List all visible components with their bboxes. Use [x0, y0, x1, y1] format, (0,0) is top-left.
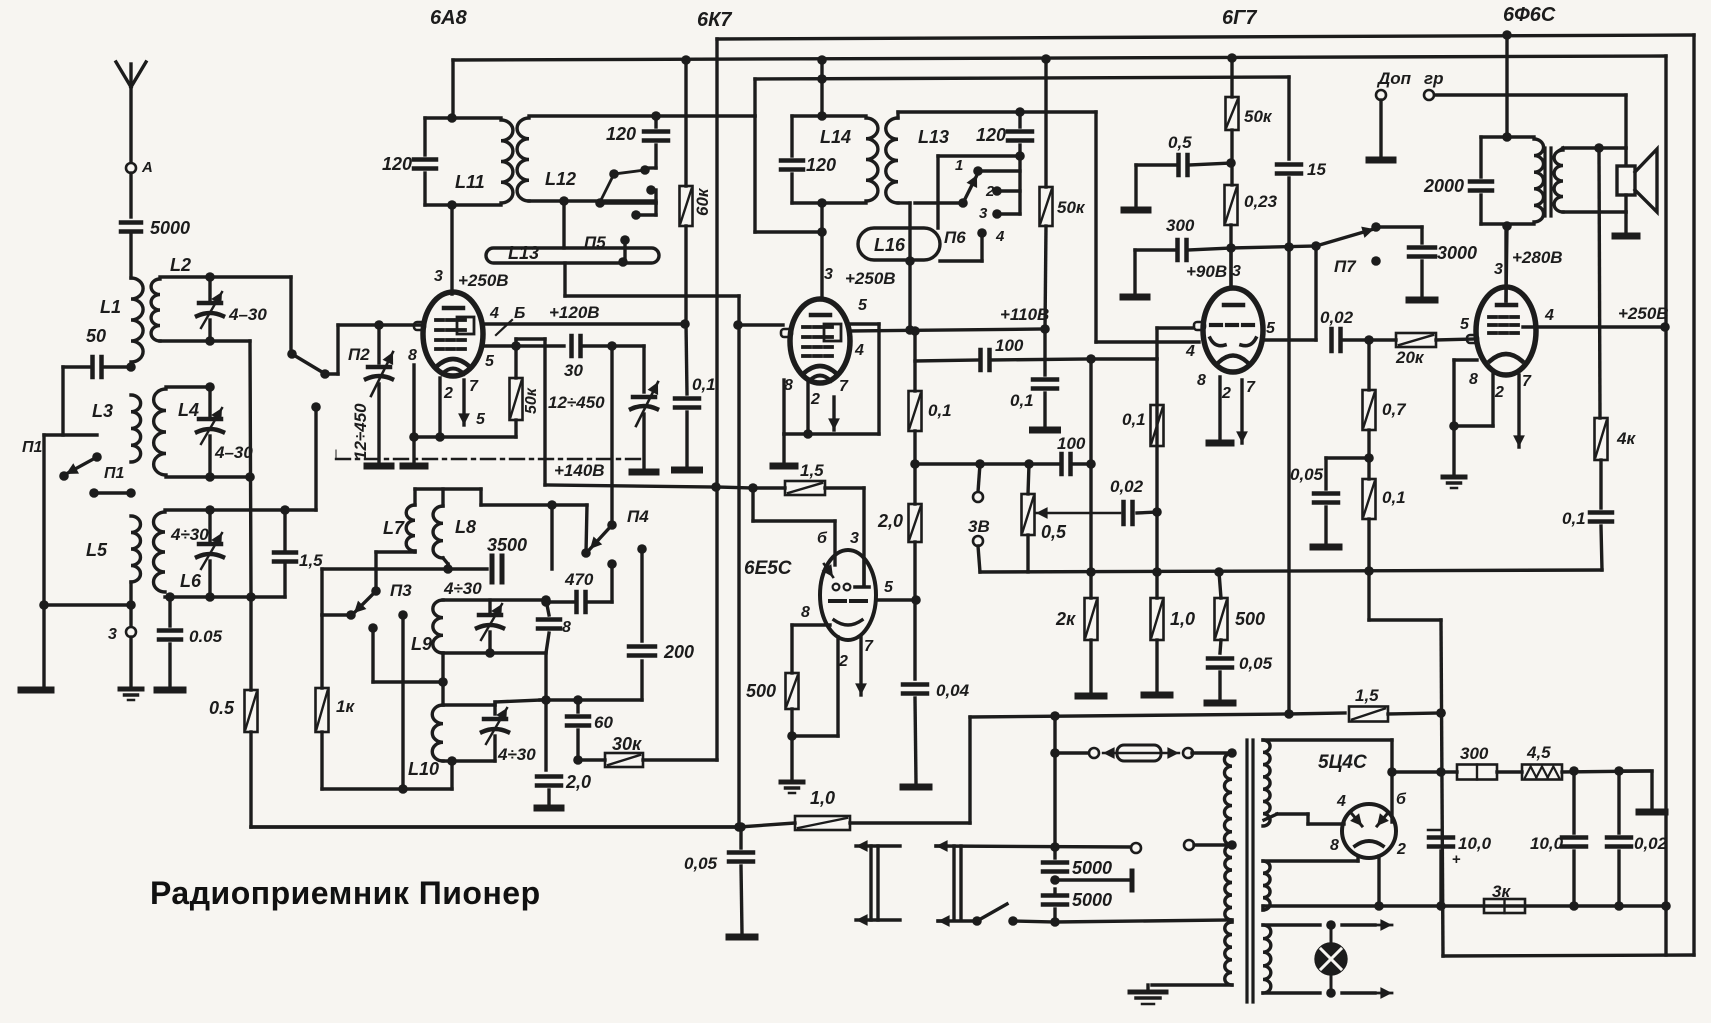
svg-text:100: 100 [995, 336, 1024, 355]
svg-text:7: 7 [1246, 379, 1256, 396]
node L14 bottom [817, 198, 827, 208]
terminal tap1 [1131, 843, 1141, 853]
node 300cap [1226, 243, 1236, 253]
node grid 6Ф6С [1364, 335, 1374, 345]
wire cap50 to corner [63, 367, 92, 435]
node 6F cath [1449, 421, 1459, 431]
wire L14 left [790, 116, 793, 156]
wire eye r500 down [790, 709, 793, 779]
svg-text:L14: L14 [820, 127, 851, 147]
switch П5 lever [600, 170, 645, 202]
switch П5 contact2 [646, 185, 656, 195]
wire node to cap 50 [103, 365, 127, 368]
svg-text:5000: 5000 [1072, 858, 1112, 878]
chassis tab [1130, 871, 1135, 890]
terminal 300 [1123, 294, 1147, 301]
svg-text:4: 4 [854, 342, 864, 359]
wire 10a down [1439, 851, 1442, 906]
wire 0.1b lead [1043, 329, 1046, 375]
wire cath bus [980, 570, 1602, 572]
svg-text:12÷450: 12÷450 [548, 393, 605, 412]
svg-text:8: 8 [1330, 837, 1339, 854]
svg-text:30к: 30к [612, 734, 642, 754]
wire доп гр circuit [1433, 95, 1626, 148]
wire trim L4 bottom [208, 436, 211, 477]
capacitor 3000 [1409, 248, 1435, 257]
node B+ 713 [1436, 708, 1446, 718]
wire 827-1.0 [739, 823, 795, 827]
wire bottom return [1443, 955, 1694, 956]
svg-text:6К7: 6К7 [697, 9, 732, 31]
wire 0.7 top [1367, 340, 1370, 390]
wire 0.1 down [1367, 519, 1370, 571]
wire L9 bottom [443, 651, 546, 654]
terminal З [126, 627, 136, 637]
switch П4 contact a [581, 548, 591, 558]
svg-text:L11: L11 [455, 172, 485, 192]
capacitor 100 b [1062, 454, 1071, 474]
wire OT left [1479, 137, 1482, 177]
node L16 link [905, 256, 915, 266]
wire contact b down [610, 564, 613, 602]
wire 0.5 right [1190, 163, 1231, 165]
resistor 1.5 ifcath [785, 481, 825, 495]
svg-text:10,0: 10,0 [1530, 834, 1564, 853]
resistor 20к [1396, 333, 1436, 347]
node L13 tap [618, 257, 628, 267]
coil L13 if [886, 118, 898, 203]
svg-text:П3: П3 [390, 581, 412, 600]
svg-text:4: 4 [1185, 343, 1195, 360]
wire 30k wire [578, 758, 605, 761]
svg-text:470: 470 [564, 570, 594, 589]
svg-text:0,5: 0,5 [1168, 133, 1192, 152]
node cath a [435, 432, 445, 442]
node 10b bottom [1569, 901, 1579, 911]
svg-text:3: 3 [434, 268, 443, 285]
wire 5000 tap [1055, 878, 1132, 881]
tube 6А8 [414, 292, 483, 376]
capacitor 5000 b [1043, 896, 1067, 905]
terminal speaker [1615, 233, 1637, 240]
node cap1.5 top [280, 505, 290, 515]
wire fil top [1263, 856, 1358, 861]
wire L8 bottom [443, 558, 448, 569]
wire R50k bottom [414, 420, 516, 437]
node 3500 link [547, 500, 557, 510]
wire c4 down [940, 233, 982, 261]
wire 0.05 down [1218, 672, 1221, 699]
wire L12 bottom [529, 199, 656, 202]
pointer Б [496, 320, 512, 335]
wire speaker gnd [1624, 212, 1627, 232]
coil L14 [866, 118, 878, 201]
switch П6 contact3 [992, 209, 1002, 219]
bus 1046b [1045, 226, 1046, 329]
wire 300 left [1135, 250, 1175, 294]
node 0.05 bias [1364, 453, 1374, 463]
node OT top line [1502, 30, 1512, 40]
wire contact c [94, 491, 131, 494]
wire top inner [451, 60, 454, 118]
svg-text:0,02: 0,02 [1320, 308, 1354, 327]
coil L9 [433, 600, 443, 653]
capacitor 0.05 bias [1314, 494, 1338, 503]
wire cap8 down [546, 633, 549, 700]
capacitor 50 [93, 357, 102, 377]
wire 10b down [1572, 851, 1575, 906]
wire L12 plate drop [654, 79, 755, 116]
svg-text:0,05: 0,05 [684, 854, 718, 873]
svg-text:4к: 4к [1616, 429, 1636, 448]
node L6 bottom trim [205, 592, 215, 602]
switch П3 pivot [371, 586, 381, 596]
svg-text:12÷450: 12÷450 [351, 403, 370, 460]
svg-text:б: б [1396, 791, 1407, 808]
svg-text:500: 500 [1235, 609, 1265, 629]
svg-text:2,0: 2,0 [877, 511, 903, 531]
switch П6 contact2 [992, 186, 1002, 196]
node R50k top [511, 341, 521, 351]
node heater 1289 [1284, 709, 1294, 719]
wire avc cap down [741, 866, 742, 933]
svg-text:60: 60 [594, 713, 613, 732]
svg-text:7: 7 [469, 378, 479, 395]
resistor 1к [316, 688, 329, 732]
switch П2b contact [311, 402, 321, 412]
wire 6G7 pin5 [1262, 338, 1316, 341]
ground mains [1130, 985, 1166, 1004]
heater arrow 6Ф6С [1513, 375, 1525, 447]
svg-text:0,1: 0,1 [1562, 509, 1586, 528]
node L14 top [817, 111, 827, 121]
node L2 bottom [205, 336, 215, 346]
wire 0.02 right [1137, 512, 1157, 513]
svg-text:5000: 5000 [1072, 890, 1112, 910]
switch П5 contact1 [640, 165, 650, 175]
wire gang2 top [642, 346, 645, 392]
switch П5 contact3 [631, 210, 641, 220]
switch П1 lever [66, 457, 97, 474]
coil L4 [154, 389, 166, 475]
wire L10 trim b [493, 736, 496, 761]
terminal bar 0.05 [157, 687, 183, 694]
switch П4 contact c [637, 544, 647, 554]
wire 6F plate [1504, 230, 1507, 301]
svg-text:6Ф6С: 6Ф6С [1503, 4, 1556, 26]
svg-text:L10: L10 [408, 759, 439, 779]
heater arrow 6А8 [458, 380, 470, 425]
wire L14 to plate [820, 203, 823, 299]
capacitor 470 [577, 592, 586, 612]
switch П3 contact b [368, 623, 378, 633]
svg-text:3: 3 [824, 266, 833, 283]
wire cath stub [412, 437, 415, 463]
capacitor 60 [567, 717, 589, 726]
wire 1157 vert [1155, 359, 1158, 512]
wire cap1.5 top [283, 510, 286, 549]
wire L8 stub [441, 489, 444, 506]
wire fil bottom [1261, 906, 1264, 910]
capacitor 5000 antenna [121, 223, 141, 232]
wire L6 top [165, 508, 316, 511]
wire R1.5 out [1388, 713, 1441, 714]
wire 0.1 lead [686, 324, 687, 394]
wire eye pin2 [792, 637, 838, 736]
wire avc cap 0.05 lead [739, 827, 742, 848]
wire П7 drop [1314, 246, 1317, 340]
switch П1 contact c [89, 488, 99, 498]
svg-text:L16: L16 [874, 235, 906, 255]
node L9 bottom [438, 677, 448, 687]
node 2k [1086, 567, 1096, 577]
wire b+ 2 [755, 77, 1289, 79]
speaker [1617, 149, 1657, 212]
tube 5Ц4С [1342, 804, 1396, 858]
wire left down [42, 435, 45, 688]
svg-text:120: 120 [606, 124, 636, 144]
capacitor 0.04 [903, 685, 927, 694]
svg-text:0,1: 0,1 [692, 375, 716, 394]
resistor 1.5 filter [1349, 707, 1388, 722]
node 915-464 [910, 459, 920, 469]
lamp line 1 [1263, 919, 1392, 931]
wire 6G7 pin2 [1218, 377, 1221, 440]
wire OT top edge [1481, 135, 1534, 138]
node +120 bus [680, 319, 690, 329]
wire 30k right [643, 758, 717, 761]
wire 915 c [913, 542, 916, 679]
node cap120b [1015, 107, 1025, 117]
wire 2k down [1089, 640, 1092, 692]
node 60cap [573, 695, 583, 705]
node main line [126, 488, 136, 498]
node 30k left [573, 755, 583, 765]
wire grid2 box [516, 339, 545, 346]
svg-text:П1: П1 [22, 439, 43, 456]
tube 6Е5С [820, 550, 876, 640]
svg-text:0.5: 0.5 [209, 698, 235, 718]
coil L16 [858, 228, 940, 260]
resistor 300 filter [1457, 765, 1497, 780]
wire П4 drop [610, 346, 613, 525]
wire 545 down [543, 339, 546, 485]
switch П2a arm [320, 369, 330, 379]
svg-text:5: 5 [1266, 320, 1276, 337]
wire 6F pin2 [1454, 372, 1493, 426]
wire pot bottom [1026, 535, 1029, 572]
terminal 2.0 [537, 805, 561, 812]
svg-text:120: 120 [806, 155, 836, 175]
terminal tap2 [1184, 840, 1194, 850]
switch П1 contact a [92, 452, 102, 462]
heater arrow 6Г7 [1236, 380, 1248, 443]
lamp line bottom [856, 914, 974, 927]
switch П5 contact4 [620, 235, 630, 245]
node primary tap [1227, 840, 1237, 850]
svg-text:1,5: 1,5 [800, 461, 824, 480]
svg-text:1,5: 1,5 [1355, 686, 1379, 705]
wire wafer link [938, 156, 1020, 228]
svg-text:3В: 3В [968, 517, 990, 536]
wire L13 out [565, 263, 739, 296]
wire bus to R0.5 [249, 597, 252, 690]
wire L12 tap down [562, 201, 565, 248]
wire 4k down [1599, 460, 1602, 508]
bus 1232 [1230, 58, 1233, 97]
resistor 4к [1595, 418, 1608, 460]
wire tap2 [1194, 843, 1232, 846]
dial lamp cable left [871, 846, 878, 920]
wire 6F screen [1523, 325, 1665, 328]
svg-text:L7: L7 [383, 518, 405, 538]
node top 1046 [1041, 54, 1051, 64]
wire eye pin8 [792, 625, 830, 673]
ground antenna [120, 689, 142, 700]
node cap005 avc [736, 822, 746, 832]
node eye gnd [787, 731, 797, 741]
node L4 top [205, 382, 215, 392]
wire trimmer L2 bottom [208, 320, 211, 341]
wire cap15 down [1287, 178, 1290, 713]
capacitor 0.05 dec [1208, 659, 1232, 668]
terminal 6K7 cath [773, 463, 795, 470]
capacitor 120 L14 [781, 161, 803, 170]
wire L10 bottom [443, 759, 495, 762]
wire antenna to C1 [129, 173, 132, 217]
node lamp top [1326, 920, 1336, 930]
node heater 1055 [1050, 711, 1060, 721]
wire grid2 6А8 [482, 344, 564, 347]
node +110 [1040, 324, 1050, 334]
fuse [1103, 745, 1179, 761]
svg-text:0,02: 0,02 [1634, 834, 1668, 853]
node L11 bottom [447, 200, 457, 210]
svg-text:2: 2 [443, 385, 453, 402]
svg-text:П6: П6 [944, 228, 966, 247]
node left bus [39, 600, 49, 610]
trimmer 4-30 L10 [482, 708, 508, 744]
node 1441-713 [1436, 708, 1446, 718]
wire bottom bus [1263, 904, 1666, 907]
node 822-79 [817, 74, 827, 84]
wire contact c down [640, 549, 643, 641]
wire hv bottom plate4 [1264, 814, 1344, 824]
terminal bar left [21, 687, 51, 694]
wire R1.0 right [850, 717, 970, 823]
wire 0.7-0.1 [1367, 430, 1370, 479]
svg-text:L6: L6 [180, 571, 202, 591]
wire cap120b lead [1018, 112, 1021, 127]
coil L3 [131, 395, 141, 462]
node 546-700 [541, 695, 551, 705]
resistor 0.5 pot [1022, 494, 1035, 535]
switch П4 pivot [607, 520, 617, 530]
node 3V a [975, 459, 985, 469]
svg-text:+90В: +90В [1186, 262, 1227, 281]
wire c2 stub [997, 189, 1020, 192]
node 0.5cap [1226, 158, 1236, 168]
wire gang1 bottom [377, 384, 380, 463]
wire 1055 vert [1053, 716, 1056, 847]
capacitor 10.0 b [1562, 838, 1586, 847]
svg-text:б: б [817, 530, 828, 547]
node primary top [1227, 748, 1237, 758]
node 915 screen [910, 326, 920, 336]
wire trim L6 top [208, 510, 211, 541]
capacitor 30 [572, 336, 581, 356]
wire 20k to grid [1436, 339, 1475, 340]
wire 0.1 down [685, 412, 688, 466]
switch П4 lever [590, 525, 612, 549]
wire 1096 vert [1096, 112, 1199, 342]
capacitor 5000 a [1043, 863, 1067, 872]
antenna [116, 62, 146, 163]
wire cap8 lead [546, 600, 549, 615]
coil L6 [154, 512, 166, 592]
wire 3500 up [550, 505, 553, 569]
capacitor 10.0 a [1429, 838, 1453, 847]
wire L9 link [441, 653, 444, 705]
terminal 0.1b [1033, 427, 1058, 434]
wire primary gnd [1152, 983, 1232, 986]
wire L7 stub [413, 489, 416, 505]
resistor 0.1 grid [1151, 405, 1164, 446]
wire 0.5 left [1136, 165, 1176, 207]
coil L7 [406, 505, 415, 551]
coil L11 [501, 120, 513, 203]
node L2 top trim [205, 272, 215, 282]
wire gang2 bottom [642, 414, 645, 469]
switch П5 pivot [609, 169, 619, 179]
wire top outer [717, 35, 1694, 955]
switch П2a lever [292, 354, 322, 372]
svg-text:8: 8 [408, 347, 417, 364]
wire L12 top edge [529, 114, 654, 117]
svg-text:0,1: 0,1 [1010, 391, 1034, 410]
svg-text:0,23: 0,23 [1244, 192, 1278, 211]
resistor 2.0 [909, 504, 922, 542]
wire L10 up [450, 763, 453, 789]
wire L6 bottom [165, 595, 285, 598]
node 1441-772 [1436, 767, 1446, 777]
svg-text:1,5: 1,5 [299, 551, 323, 570]
terminal 2к [1078, 693, 1104, 700]
wire fuse right [1192, 751, 1232, 754]
svg-text:10,0: 10,0 [1458, 834, 1492, 853]
node L12 bottom tap [559, 196, 569, 206]
svg-text:4: 4 [489, 305, 499, 322]
node 100b [1086, 459, 1096, 469]
wire grid 6G7 [1091, 328, 1192, 359]
dial lamp cable right [954, 846, 961, 920]
svg-text:0.05: 0.05 [189, 627, 223, 646]
switch П1 contact b [59, 471, 69, 481]
wire 5000b lead [1053, 889, 1056, 895]
wire gang1 top [377, 325, 380, 363]
node 738 grid [733, 320, 743, 330]
svg-text:L13: L13 [508, 243, 539, 263]
potentiometer wiper [1036, 507, 1120, 519]
wire 0.1b down [1043, 393, 1046, 426]
svg-text:2: 2 [1396, 841, 1406, 858]
terminal 3000 [1409, 297, 1435, 304]
wire L14 left2 [790, 174, 793, 203]
svg-text:+250В: +250В [1618, 304, 1669, 323]
resistor 0.1 bias [1363, 479, 1376, 519]
wire 100b right [1071, 462, 1091, 465]
wire 3V stub [978, 464, 980, 492]
